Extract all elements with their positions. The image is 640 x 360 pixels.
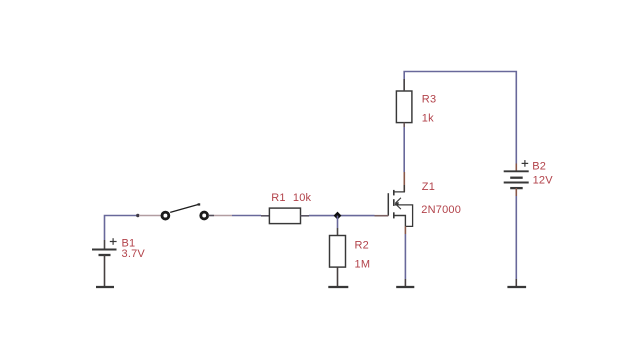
ground under B2 [507,286,526,288]
pin: switch right lead [208,215,214,217]
wire: Z1 source to ground [404,234,406,279]
pin: R2 top lead [337,228,339,236]
svg-text:10k: 10k [293,192,312,204]
wire: switch to R1 [232,215,261,217]
svg-text:R1: R1 [271,192,285,204]
wire: R3 bottom to Z1 drain [403,127,405,172]
wire: junction down to R2 [337,216,339,228]
svg-text:R3: R3 [422,93,436,105]
svg-text:B2: B2 [532,160,546,172]
pin: R1 right lead [301,215,310,217]
pin: Z1 source lead [404,226,406,234]
svg-text:1M: 1M [355,258,371,270]
pin: Z1 drain lead [403,172,405,192]
wire: top rail from R3 top to B2 top [404,72,516,164]
pin: switch left lead [139,215,162,217]
svg-text:2N7000: 2N7000 [421,204,461,216]
battery B2 [504,160,529,196]
wire: B2 bottom to ground [515,196,517,279]
pin: R2 bottom lead [337,267,339,286]
switch SW1 [162,203,208,219]
battery B1 [92,238,117,286]
svg-text:3.7V: 3.7V [122,248,146,260]
svg-text:12V: 12V [533,175,554,187]
resistor R3 [396,79,412,127]
wire: R1 to junction [309,215,338,217]
resistor R2 [330,236,346,268]
svg-text:1k: 1k [422,113,434,125]
wire: B1 top to switch [105,216,138,241]
pin: R1 left lead [261,215,269,217]
svg-text:R2: R2 [355,239,369,251]
ground under R2 [328,286,348,288]
ground under Z1 source [396,286,414,288]
transistor Z1 (NMOS 2N7000) [388,185,412,226]
resistor R1 [269,208,300,224]
node: junction of R1, R2, gate [334,212,342,220]
ground under B1 [96,286,114,288]
wire: junction to Z1 gate [338,215,375,217]
svg-text:Z1: Z1 [422,181,435,193]
pin: Z1 gate lead [375,215,389,217]
